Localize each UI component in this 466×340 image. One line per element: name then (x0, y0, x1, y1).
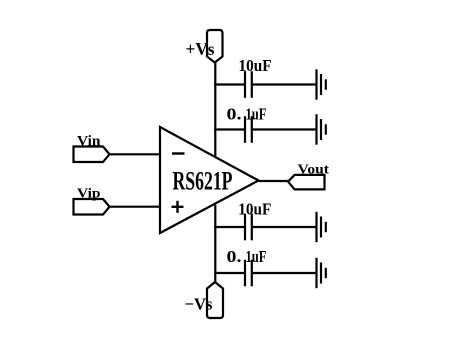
svg-text:10uF: 10uF (238, 200, 271, 219)
svg-text:1uF: 1uF (246, 247, 267, 266)
svg-text:0.: 0. (227, 104, 242, 123)
svg-text:1uF: 1uF (246, 104, 267, 123)
svg-text:Vip: Vip (77, 187, 101, 202)
svg-text:10uF: 10uF (239, 56, 272, 75)
svg-text:Vout: Vout (298, 163, 330, 178)
svg-text:Vin: Vin (77, 134, 101, 150)
svg-text:−Vs: −Vs (185, 295, 213, 314)
svg-text:0.: 0. (227, 247, 242, 266)
svg-text:RS621P: RS621P (173, 166, 233, 196)
svg-text:+Vs: +Vs (186, 39, 215, 59)
